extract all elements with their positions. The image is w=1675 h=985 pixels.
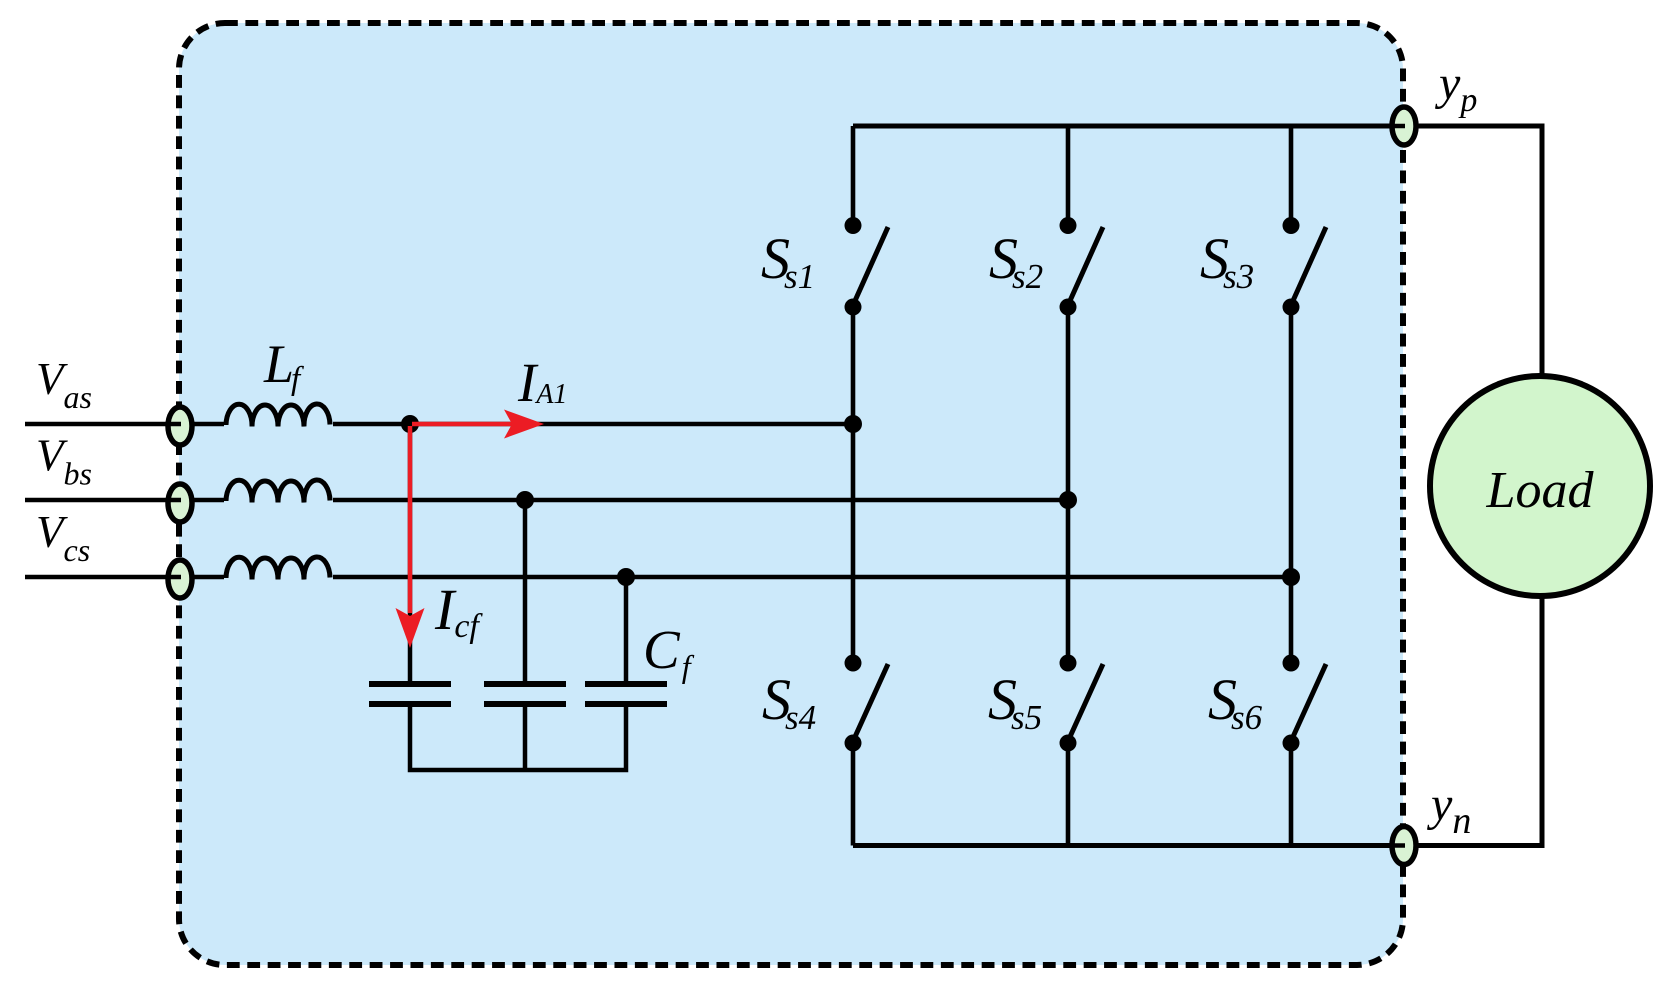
node C (filter tap, phase C) [617,568,635,586]
capacitor Cf3 plates [585,681,667,687]
inductor Lf phase B [226,480,330,503]
wire tick inside yp terminal [1390,124,1405,129]
load circle [1430,376,1650,596]
wire: bottom dc bus [853,843,1404,848]
capacitor Cf2 plates [484,681,566,687]
wire: yp terminal to load (top loop) [1404,126,1542,378]
wire: phase B to switch leg 2 [333,498,1068,503]
svg-text:yp: yp [1434,57,1477,119]
switch Ss1 [845,126,889,663]
terminal Vbs (green ellipse) [168,484,192,522]
wire tick inside yn terminal [1390,843,1405,848]
svg-text:yn: yn [1426,778,1471,842]
wire: capacitor common bottom bus [410,707,626,770]
wire: load to yn terminal (bottom loop) [1404,595,1542,846]
svg-text:Vas: Vas [36,354,92,415]
converter enclosure (dashed box) [179,23,1403,965]
junction dot phase B / leg2 [1059,491,1077,509]
wire: phase B input line [25,498,224,503]
junction dot phase C / leg3 [1282,568,1300,586]
arrow Icf (red, downward) [408,426,413,613]
arrow IA1 (red, to the right) [412,422,512,427]
terminal yn (green ellipse) [1392,827,1416,865]
wire: node C down to capacitor 3 [624,577,629,681]
node A (filter tap, phase A) [401,415,419,433]
junction dot phase A / leg1 [844,415,862,433]
wire tick inside Vbs terminal [166,498,181,503]
wire: phase C input line [25,575,224,580]
switch Ss2 [1060,126,1104,663]
wire tick inside Vcs terminal [166,575,181,580]
node B (filter tap, phase B) [516,491,534,509]
svg-text:Load: Load [1486,462,1595,519]
terminal Vcs (green ellipse) [168,560,192,598]
switch Ss5 [1060,655,1104,846]
inductor Lf phase A [226,404,330,427]
wire: top dc bus [853,124,1404,129]
terminal Vas (green ellipse) [168,407,192,445]
wire: phase C to switch leg 3 [333,575,1291,580]
wire: node B down to capacitor 2 [523,500,528,681]
switch Ss4 [845,655,889,846]
wire: node A down to capacitor 1 [408,424,413,681]
switch Ss6 [1283,655,1327,846]
switch Ss3 [1283,126,1327,663]
wire tick inside Vas terminal [166,422,181,427]
wire: phase A to switch leg 1 [333,422,853,427]
inductor Lf phase C [226,557,330,580]
wire: phase A input line [25,422,224,427]
capacitor Cf1 plates [369,681,451,687]
svg-text:Vcs: Vcs [36,507,90,568]
svg-text:Vbs: Vbs [36,431,92,492]
terminal yp (green ellipse) [1392,107,1416,145]
